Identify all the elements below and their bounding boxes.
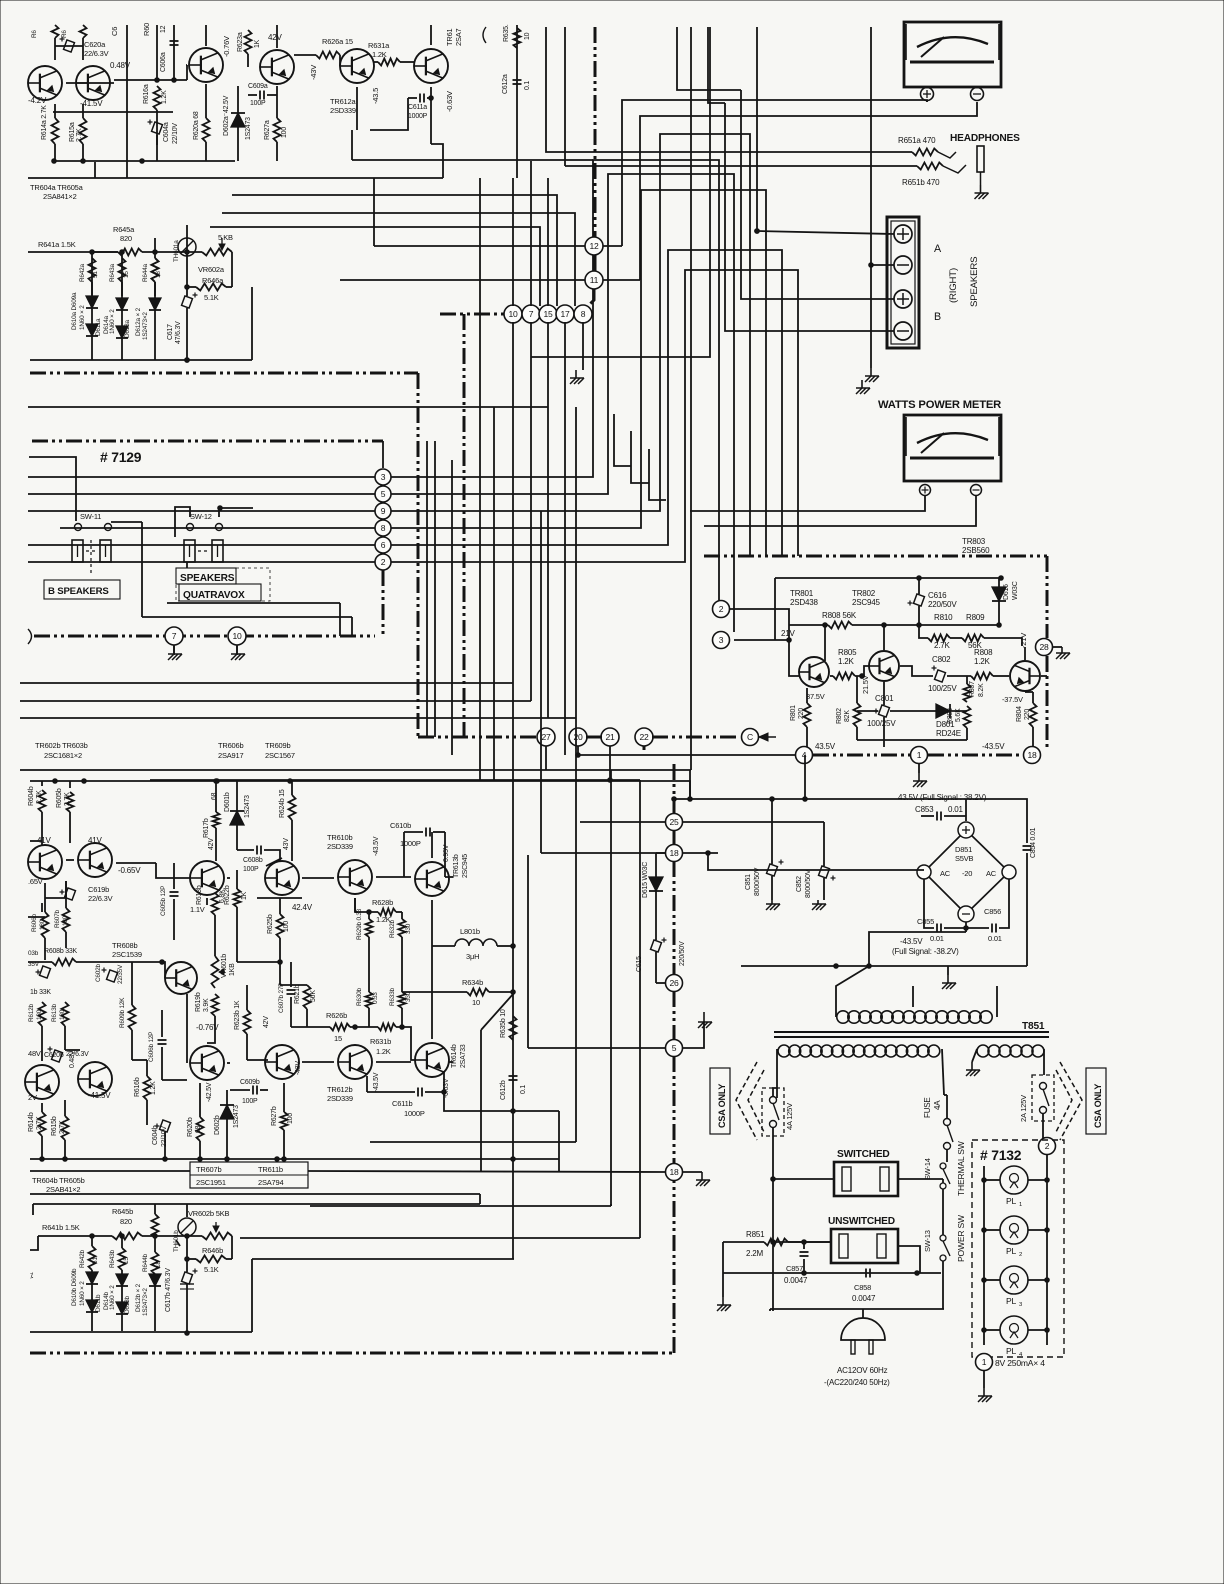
- svg-text:SW-12: SW-12: [190, 512, 212, 521]
- wire: [141, 522, 143, 617]
- label 1S2473b: [244, 795, 251, 818]
- svg-text:2: 2: [1045, 1141, 1050, 1151]
- wire: [944, 815, 966, 817]
- resistor R622b: [234, 889, 241, 907]
- label R801 v: [798, 708, 805, 719]
- label 43Vb: [283, 838, 290, 850]
- label R624b: [279, 789, 286, 818]
- wire: [528, 1047, 666, 1049]
- label VR602a: [198, 265, 225, 274]
- svg-text:1.2K: 1.2K: [838, 657, 855, 666]
- wire: [433, 831, 445, 833]
- wire: [186, 1284, 188, 1333]
- svg-text:R614a 2.7K: R614a 2.7K: [41, 105, 48, 140]
- wire: [682, 1022, 704, 1048]
- wire: [729, 609, 799, 676]
- wire: [725, 103, 894, 331]
- label R621b v: [310, 990, 317, 1002]
- label PL2: [1006, 1246, 1017, 1256]
- wire: [734, 639, 789, 641]
- wire: [408, 97, 417, 99]
- label R614b v: [36, 1116, 43, 1130]
- svg-text:100P: 100P: [242, 1098, 258, 1105]
- label C604a: [163, 122, 170, 142]
- wire: [404, 831, 423, 833]
- svg-text:PL: PL: [1006, 1196, 1017, 1206]
- inductor L801b: [455, 939, 497, 946]
- label 41V b: [88, 836, 103, 845]
- capacitor C6xx: [36, 966, 51, 978]
- svg-text:18: 18: [1027, 750, 1037, 760]
- label D801 t: [936, 729, 961, 738]
- diode D613b: [116, 1302, 128, 1314]
- bus wire (dash-dot): [673, 861, 676, 975]
- wire: [257, 897, 280, 899]
- wire: [773, 1178, 834, 1180]
- svg-text:2SC1681×2: 2SC1681×2: [44, 751, 82, 760]
- capacitor C610b: [426, 828, 430, 837]
- svg-text:R646a: R646a: [202, 276, 224, 285]
- wire: [996, 986, 998, 1017]
- junction: [429, 96, 434, 101]
- svg-text:2.7K: 2.7K: [59, 1120, 66, 1134]
- wire: [497, 945, 513, 947]
- label R646a: [202, 276, 224, 285]
- label TR614b t: [460, 1044, 467, 1068]
- svg-text:1N60 × 2: 1N60 × 2: [109, 309, 116, 334]
- label R644a v: [155, 271, 162, 278]
- label -0.76Vb: [196, 1023, 219, 1032]
- wire: [66, 859, 74, 861]
- wire: [121, 252, 123, 296]
- wire: [773, 1088, 777, 1096]
- svg-text:12: 12: [160, 25, 167, 33]
- wire: [836, 966, 869, 1017]
- capacitor C604a: [148, 120, 163, 135]
- wire: [451, 460, 453, 755]
- diode D612a: [149, 298, 161, 310]
- wire: [722, 1242, 724, 1273]
- svg-text:15: 15: [123, 1257, 130, 1264]
- transistor TR613b: [415, 862, 449, 896]
- junction: [706, 851, 711, 856]
- wire: [30, 1170, 190, 1172]
- terminal +B: [894, 290, 912, 308]
- wire: [82, 104, 84, 118]
- ground C857: [717, 1297, 731, 1311]
- wire: [402, 991, 467, 993]
- transistor TR606a: [189, 48, 223, 82]
- wire: [998, 578, 1000, 587]
- svg-text:C801: C801: [875, 694, 894, 703]
- svg-text:0.48V: 0.48V: [69, 1050, 76, 1068]
- svg-text:D610b D609b: D610b D609b: [71, 1268, 78, 1306]
- label QUATRAVOX: [179, 584, 261, 601]
- label -43.5V full2: [892, 947, 959, 956]
- svg-text:VR602a: VR602a: [198, 265, 225, 274]
- svg-text:10: 10: [472, 998, 480, 1007]
- wire: [367, 1091, 415, 1093]
- wire: [91, 1270, 93, 1272]
- wire: [41, 1058, 43, 1061]
- svg-text:R635b 10: R635b 10: [500, 1009, 507, 1038]
- junction: [275, 1157, 280, 1162]
- svg-text:R620a 68: R620a 68: [193, 111, 200, 140]
- label TH601a: [173, 240, 180, 262]
- wire: [431, 832, 433, 858]
- label R607b v: [62, 915, 69, 926]
- resistor R624b: [289, 795, 296, 820]
- wire: [900, 666, 933, 676]
- label -43.5: [371, 88, 380, 104]
- label 43.5V reg: [815, 742, 836, 751]
- junction: [160, 960, 165, 965]
- svg-text:-(AC220/240 50Hz): -(AC220/240 50Hz): [824, 1378, 890, 1387]
- label 48V: [28, 1049, 41, 1058]
- wire: [44, 938, 46, 960]
- resistor R606b: [42, 912, 49, 938]
- wire: [53, 111, 173, 113]
- junction: [215, 779, 220, 784]
- svg-text:QUATRAVOX: QUATRAVOX: [183, 590, 245, 601]
- resistor R809: [962, 635, 984, 642]
- svg-text:R615b: R615b: [51, 1116, 58, 1136]
- label R646b: [202, 1246, 223, 1255]
- wire: [247, 54, 249, 67]
- diode D616: [992, 587, 1006, 601]
- svg-text:R618b: R618b: [196, 885, 203, 905]
- label R631b: [370, 1037, 391, 1046]
- node 17: [556, 305, 574, 323]
- wire: [771, 799, 773, 864]
- svg-text:R635.: R635.: [503, 24, 510, 42]
- pot VR602a: [202, 249, 232, 256]
- wire: [44, 883, 46, 912]
- svg-text:R645b: R645b: [112, 1207, 133, 1216]
- junction: [511, 1109, 516, 1114]
- svg-text:8.2K: 8.2K: [978, 683, 985, 697]
- wire: [803, 1259, 805, 1273]
- svg-text:0.01: 0.01: [930, 934, 944, 943]
- wire: [445, 876, 453, 878]
- svg-text:82K: 82K: [844, 710, 851, 722]
- wire: [20, 717, 576, 719]
- wire: [30, 840, 42, 842]
- svg-text:R808 56K: R808 56K: [822, 611, 857, 620]
- wire: [564, 27, 566, 166]
- wire: [723, 1272, 941, 1274]
- junction: [770, 797, 775, 802]
- label C615 v: [679, 941, 686, 966]
- junction: [688, 797, 693, 802]
- wire: [824, 625, 826, 661]
- wire: [230, 1089, 250, 1091]
- label R630b v: [372, 992, 379, 1004]
- svg-text:C854 0.01: C854 0.01: [1030, 827, 1037, 858]
- label R643a v: [123, 271, 130, 278]
- wire: [132, 1059, 147, 1061]
- diode D601b: [230, 811, 244, 825]
- wire: [132, 962, 165, 978]
- wire: [430, 25, 432, 45]
- resistor R644b: [152, 1252, 159, 1274]
- label 22/6.3Vb: [66, 1051, 89, 1058]
- junction: [185, 1257, 190, 1262]
- ground below 10: [231, 646, 245, 660]
- svg-text:D851: D851: [955, 845, 972, 854]
- label SW-13: [923, 1230, 932, 1252]
- label C608b v: [243, 866, 259, 873]
- svg-text:R630b: R630b: [356, 987, 363, 1006]
- svg-text:-42.5V: -42.5V: [206, 1082, 213, 1102]
- wire: [708, 853, 924, 870]
- svg-text:R612b: R612b: [28, 1003, 35, 1022]
- wire: [251, 1259, 253, 1332]
- svg-text:51: 51: [92, 271, 99, 278]
- svg-text:R631b: R631b: [370, 1037, 391, 1046]
- wire: [236, 645, 238, 655]
- svg-text:1.2K: 1.2K: [376, 1047, 391, 1056]
- wire: [919, 625, 928, 638]
- wire: [771, 876, 773, 900]
- svg-text:R626a 15: R626a 15: [322, 37, 353, 46]
- label C851: [745, 874, 752, 890]
- wire: [276, 86, 278, 118]
- label C607b: [278, 983, 285, 1013]
- wire: [41, 812, 43, 845]
- wire: [431, 1022, 433, 1039]
- svg-text:5.6K: 5.6K: [955, 708, 962, 722]
- wire: [431, 900, 433, 944]
- wire: [154, 238, 156, 258]
- svg-text:27: 27: [541, 732, 551, 742]
- junction: [172, 78, 177, 83]
- wire: [804, 755, 806, 799]
- resistor R629b: [366, 919, 373, 937]
- wire: [965, 922, 967, 932]
- bus wire (dash-dot): [30, 372, 418, 375]
- wire: [789, 624, 828, 626]
- wire: [1043, 1049, 1045, 1075]
- label C609a: [248, 83, 268, 90]
- label C608b: [243, 857, 263, 864]
- label 0.01 c856: [988, 934, 1002, 943]
- label R645a: [113, 225, 135, 234]
- pot VR601b: [212, 956, 226, 988]
- svg-text:SW-13: SW-13: [923, 1230, 932, 1252]
- diode D611a: [86, 324, 98, 336]
- wire: [366, 1076, 368, 1092]
- resistor R628b: [378, 909, 396, 916]
- label R809 v: [968, 641, 983, 650]
- label C851 v: [754, 867, 761, 896]
- wire: [121, 1286, 123, 1302]
- resistor R645a: [152, 258, 159, 282]
- wire: [205, 84, 207, 118]
- CSA arrow right: [1056, 1062, 1082, 1140]
- wire: [431, 144, 443, 178]
- wire: [942, 1179, 944, 1183]
- wire: [41, 1103, 43, 1112]
- svg-text:C609a: C609a: [248, 83, 268, 90]
- label C858: [854, 1283, 871, 1292]
- wire: [883, 717, 885, 747]
- wire: [350, 1026, 378, 1028]
- svg-text:D601b: D601b: [224, 792, 231, 812]
- label R803 v: [955, 708, 962, 722]
- label D610a: [71, 292, 78, 330]
- wire: [582, 322, 584, 370]
- wire: [1024, 647, 1026, 660]
- label R628b v: [376, 915, 391, 924]
- junction: [185, 250, 190, 255]
- svg-text:R607b: R607b: [54, 909, 61, 928]
- label SPEAKERS vert: [969, 257, 980, 307]
- svg-text:CSA ONLY: CSA ONLY: [717, 1084, 727, 1128]
- node 25: [666, 814, 683, 831]
- wire: [222, 213, 575, 306]
- wire: [54, 144, 56, 161]
- node 15: [539, 305, 557, 323]
- CSA arrow left: [736, 1062, 764, 1140]
- wire: [622, 100, 927, 246]
- svg-text:100: 100: [283, 921, 290, 932]
- junction: [511, 944, 516, 949]
- label D615: [642, 862, 649, 898]
- wire: [65, 881, 67, 908]
- wire: [449, 1061, 453, 1063]
- wire: [354, 898, 356, 912]
- wire: [294, 54, 316, 56]
- svg-text:5.1K: 5.1K: [204, 293, 219, 302]
- switch SW-14: [940, 1163, 950, 1189]
- wire: [898, 1178, 943, 1180]
- wire: [28, 406, 548, 408]
- resistor R620a: [203, 118, 210, 142]
- wire: [391, 250, 782, 556]
- wire: [391, 270, 798, 562]
- wire: [376, 876, 411, 878]
- label 4A: [933, 1100, 942, 1110]
- wire: [756, 27, 758, 231]
- diode D602b: [220, 1105, 234, 1119]
- wire: [264, 850, 280, 861]
- svg-text:R632b: R632b: [389, 919, 396, 938]
- junction: [185, 285, 190, 290]
- resistor R617b: [213, 812, 220, 828]
- svg-text:C802: C802: [932, 655, 951, 664]
- capacitor C609a: [260, 91, 264, 100]
- wire: [489, 991, 513, 993]
- wire: [30, 1331, 252, 1333]
- wire: [186, 65, 188, 80]
- label 1S2473b2: [233, 1105, 240, 1128]
- transistor TR612a: [340, 49, 374, 83]
- ground secondary2: [966, 1062, 980, 1076]
- wire: [232, 195, 557, 306]
- wire: [121, 282, 123, 298]
- transistor TR801: [799, 657, 829, 687]
- label 3uH: [466, 952, 479, 961]
- wire: [530, 161, 532, 306]
- svg-text:D615 W03C: D615 W03C: [642, 862, 649, 898]
- label 42Vb: [263, 1016, 270, 1028]
- label D616: [1003, 584, 1010, 600]
- wire: [430, 87, 432, 144]
- ground pilot: [978, 1388, 992, 1402]
- label D612a: [135, 307, 142, 336]
- wire: [776, 1049, 778, 1098]
- node C: [742, 729, 759, 746]
- label 1N60x2d: [109, 1285, 116, 1310]
- label D601b: [224, 792, 231, 812]
- label R651b: [902, 178, 940, 187]
- svg-text:.65V: .65V: [28, 877, 43, 886]
- svg-text:TR606b: TR606b: [218, 741, 243, 750]
- wire: [1026, 816, 1028, 843]
- label -43.5V reg: [982, 742, 1005, 751]
- label C856: [984, 907, 1001, 916]
- wire: [674, 798, 966, 800]
- resistor R616b: [144, 1076, 151, 1100]
- svg-text:2SC1951: 2SC1951: [196, 1178, 226, 1187]
- svg-text:TR612b: TR612b: [327, 1085, 352, 1094]
- svg-text:2: 2: [1019, 1252, 1022, 1258]
- svg-text:TR602b TR603b: TR602b TR603b: [35, 741, 88, 750]
- ground speaker common: [865, 368, 879, 382]
- svg-text:2SD438: 2SD438: [790, 598, 819, 607]
- capacitor C853: [937, 812, 941, 821]
- label R622b: [224, 885, 231, 905]
- wire: [966, 927, 989, 929]
- svg-text:56K: 56K: [310, 990, 317, 1002]
- svg-text:W03C: W03C: [1012, 581, 1019, 600]
- label R615b v: [59, 1120, 66, 1134]
- label R643b: [109, 1249, 116, 1268]
- wire: [351, 130, 353, 160]
- svg-text:C612a: C612a: [502, 74, 509, 94]
- resistor R643b: [119, 1248, 126, 1270]
- svg-text:1: 1: [982, 1357, 987, 1367]
- wire: [965, 799, 967, 821]
- wire: [237, 961, 280, 963]
- node 1: [911, 747, 928, 764]
- junction: [1045, 1178, 1050, 1183]
- label TR611a t: [454, 28, 463, 46]
- label R625b v: [283, 921, 290, 932]
- label R625b: [267, 914, 274, 934]
- wire: [984, 1329, 1000, 1331]
- label R612b: [28, 1003, 35, 1022]
- resistor R643a: [119, 258, 126, 282]
- svg-text:R651a 470: R651a 470: [898, 136, 936, 145]
- pilot lamp PL4: [1000, 1316, 1028, 1344]
- label D611a: [95, 318, 102, 336]
- label R616a v: [161, 90, 168, 104]
- wire: [912, 986, 914, 1007]
- wire: [173, 863, 175, 889]
- resistor R807: [964, 684, 971, 702]
- label CSA ONLY right: [1086, 1068, 1106, 1134]
- svg-text:R616b: R616b: [134, 1077, 141, 1097]
- resistor R627b: [281, 1112, 288, 1130]
- svg-text:22/10V: 22/10V: [172, 123, 179, 144]
- thermistor TH601a: [178, 238, 196, 256]
- wire: [267, 94, 277, 96]
- junction: [353, 1025, 358, 1030]
- wire: [918, 606, 920, 625]
- label 1b 33K: [30, 989, 51, 996]
